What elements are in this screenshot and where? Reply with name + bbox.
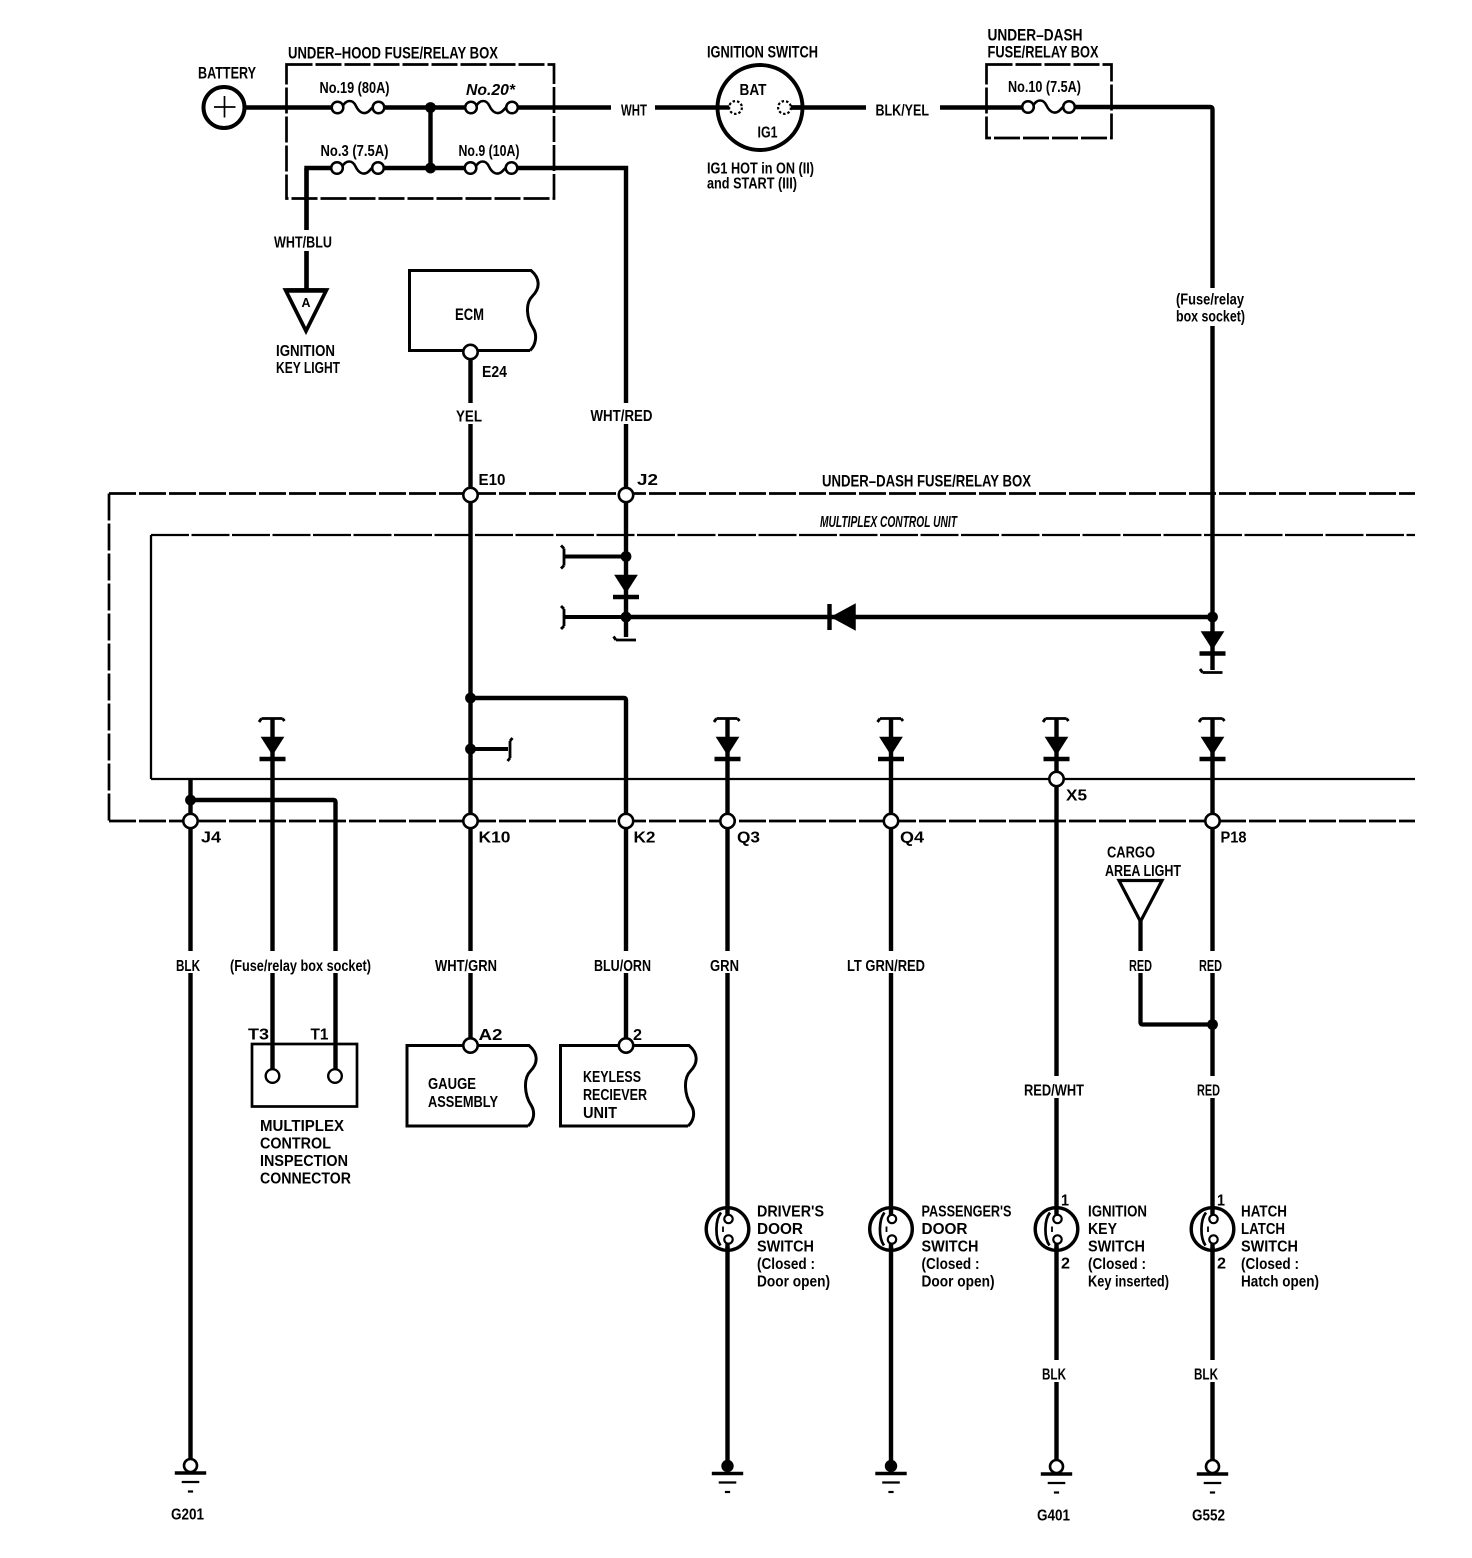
wire K2 to keyless receiver pin 2 — [624, 828, 628, 1039]
svg-text:UNIT: UNIT — [583, 1105, 617, 1122]
svg-text:LATCH: LATCH — [1241, 1221, 1285, 1238]
hook above diode D7 (X5 column) — [1043, 719, 1069, 723]
svg-text:IGNITION: IGNITION — [1088, 1204, 1147, 1221]
label WHT wire — [611, 98, 655, 120]
ground G201 — [175, 1459, 206, 1492]
fuse No.9 (10A) — [465, 162, 518, 174]
wire battery to fuse No.19 — [244, 105, 333, 109]
svg-text:No.19 (80A): No.19 (80A) — [320, 80, 390, 97]
svg-text:INSPECTION: INSPECTION — [260, 1153, 348, 1170]
cargo area light (lamp triangle) — [1119, 881, 1162, 922]
junction dot row2 — [425, 163, 436, 174]
hook above diode D6 (Q4 column) — [878, 719, 904, 723]
junction dot P18 column at bus — [1207, 612, 1218, 623]
svg-text:Q3: Q3 — [737, 830, 760, 847]
wire RED P18 to hatch latch switch pin 1 — [1210, 828, 1214, 1211]
ECM box — [410, 271, 539, 351]
svg-text:A2: A2 — [479, 1027, 503, 1044]
keyless receiver unit box — [561, 1046, 697, 1127]
svg-text:DRIVER'S: DRIVER'S — [757, 1204, 824, 1221]
svg-text:G552: G552 — [1192, 1508, 1225, 1525]
svg-text:LT GRN/RED: LT GRN/RED — [847, 958, 925, 975]
stub hook below J2 column — [614, 637, 637, 641]
svg-text:BATTERY: BATTERY — [198, 64, 256, 83]
svg-text:ECM: ECM — [455, 305, 484, 324]
connector K10 — [463, 814, 477, 828]
svg-text:UNDER–DASH FUSE/RELAY BOX: UNDER–DASH FUSE/RELAY BOX — [822, 472, 1032, 491]
svg-text:1: 1 — [1061, 1193, 1069, 1210]
fuse No.3 (7.5A) — [331, 162, 384, 174]
svg-text:ASSEMBLY: ASSEMBLY — [428, 1094, 498, 1111]
svg-text:RECIEVER: RECIEVER — [583, 1087, 647, 1104]
svg-text:Door open): Door open) — [757, 1274, 830, 1291]
label DRIVER'S DOOR SWITCH (Closed : Door open) — [757, 1204, 830, 1291]
svg-text:2: 2 — [1217, 1256, 1226, 1273]
label BLK/YEL wire — [866, 98, 940, 120]
svg-text:Door open): Door open) — [922, 1274, 995, 1291]
wire fuse No.3 to junction to fuse No.9 — [383, 166, 466, 170]
diode D7 (down) — [1044, 738, 1070, 760]
connector K2 — [619, 814, 633, 828]
gauge assembly box — [407, 1046, 536, 1127]
svg-text:(Fuse/relay box socket): (Fuse/relay box socket) — [230, 958, 371, 975]
svg-text:and START (III): and START (III) — [707, 176, 797, 193]
battery — [204, 87, 245, 128]
label LT GRN/RED wire — [840, 951, 932, 975]
fuse No.20 — [465, 101, 518, 113]
label YEL wire — [449, 403, 490, 426]
terminal T1 — [328, 1069, 342, 1083]
label GRN wire — [703, 951, 746, 975]
multiplex control unit box: bottom edge — [151, 778, 1415, 780]
svg-text:WHT/RED: WHT/RED — [591, 408, 653, 425]
diode D3 (down, P18 column) — [1200, 632, 1226, 654]
diode D8 (down) — [1200, 738, 1226, 760]
label BLK wire (G552) — [1187, 1360, 1230, 1384]
stub wire left of J2 diode (row 1) — [564, 555, 626, 559]
fuse No.10 (7.5A) — [1022, 101, 1075, 113]
label RED/WHT wire — [1017, 1076, 1091, 1100]
ignition switch — [716, 65, 804, 150]
wire RED cargo area light to P18 column — [1141, 921, 1213, 1025]
svg-text:BLK: BLK — [176, 958, 200, 975]
stub hook left (row 1) — [561, 546, 564, 569]
svg-text:Hatch open): Hatch open) — [1241, 1274, 1319, 1291]
junction dot row1 — [425, 102, 436, 113]
svg-text:Key inserted): Key inserted) — [1088, 1274, 1169, 1291]
svg-text:RED: RED — [1197, 1083, 1220, 1100]
svg-text:G201: G201 — [171, 1507, 204, 1524]
svg-text:E24: E24 — [482, 364, 507, 381]
junction dot stub — [465, 744, 476, 755]
svg-text:GAUGE: GAUGE — [428, 1076, 476, 1093]
wire BLK J4 to G201 — [188, 828, 192, 1460]
svg-text:No.9 (10A): No.9 (10A) — [459, 143, 520, 160]
label PASSENGER'S DOOR SWITCH (Closed : Door open) — [922, 1204, 1012, 1291]
svg-text:(Closed :: (Closed : — [757, 1256, 815, 1273]
svg-text:BLU/ORN: BLU/ORN — [594, 958, 651, 975]
wire J2 down through diode stack — [624, 502, 628, 637]
connector A2 — [463, 1038, 477, 1052]
junction dot J2 row2 — [621, 612, 632, 623]
svg-text:No.20*: No.20* — [466, 82, 516, 99]
label HATCH LATCH SWITCH (Closed : Hatch open) — [1241, 1204, 1319, 1291]
wire K10 junction to K10 — [468, 698, 472, 814]
wire driver's door switch to ground — [725, 1247, 729, 1461]
wire RED/WHT X5 to ignition key switch pin 1 — [1054, 785, 1058, 1211]
multiplex control unit box: top edge — [151, 534, 1415, 536]
svg-text:No.10 (7.5A): No.10 (7.5A) — [1008, 79, 1081, 96]
svg-text:T3: T3 — [248, 1027, 269, 1044]
svg-text:KEY LIGHT: KEY LIGHT — [276, 360, 340, 377]
svg-text:SWITCH: SWITCH — [922, 1239, 979, 1256]
svg-text:2: 2 — [1061, 1256, 1070, 1273]
label WHT/RED wire — [584, 403, 660, 425]
note (Fuse/relay box socket) right — [1170, 288, 1252, 326]
hook above diode D5 (Q3 column) — [714, 719, 740, 723]
svg-text:BLK: BLK — [1194, 1367, 1218, 1384]
diode D1 (down, J2 column) — [613, 576, 639, 598]
svg-text:CONNECTOR: CONNECTOR — [260, 1171, 351, 1188]
stub end tick — [508, 738, 513, 761]
hook above diode D4 (J4 area column) — [259, 719, 285, 723]
note (Fuse/relay box socket) — [223, 951, 378, 975]
stub hook below D3 — [1200, 669, 1223, 673]
svg-text:IG1: IG1 — [758, 125, 778, 142]
stub hook left (row 2) — [561, 606, 564, 629]
wire D7 column to X5 — [1054, 718, 1058, 773]
label RED wire (P18) — [1192, 951, 1230, 975]
svg-text:J4: J4 — [201, 830, 221, 847]
svg-text:G401: G401 — [1037, 1508, 1070, 1525]
svg-text:GRN: GRN — [710, 958, 739, 975]
label WHT/GRN wire — [428, 951, 504, 975]
label RED wire (below junction) — [1190, 1076, 1228, 1100]
label WHT/BLU wire — [267, 230, 339, 252]
svg-text:(Closed :: (Closed : — [1088, 1256, 1146, 1273]
wire BLK ignition key switch pin 2 to G401 — [1054, 1247, 1058, 1461]
connector Q3 — [720, 814, 734, 828]
svg-text:RED/WHT: RED/WHT — [1024, 1083, 1084, 1100]
svg-text:MULTIPLEX CONTROL UNIT: MULTIPLEX CONTROL UNIT — [820, 514, 958, 531]
ECM pin E24 — [463, 345, 477, 359]
connector E10 — [463, 488, 477, 502]
wire fuse No.10 to right corner down (fuse/relay box socket wire) — [1075, 107, 1213, 617]
hatch latch switch — [1191, 1208, 1234, 1251]
wire GRN Q3 to driver's door switch — [725, 828, 729, 1211]
wire LT GRN/RED Q4 to passenger's door switch — [889, 828, 893, 1211]
svg-text:No.3 (7.5A): No.3 (7.5A) — [321, 143, 389, 160]
ground (driver's door switch) — [712, 1460, 743, 1492]
svg-text:KEYLESS: KEYLESS — [583, 1069, 641, 1086]
svg-text:BAT: BAT — [740, 82, 767, 99]
junction dot K10 jumper — [465, 693, 476, 704]
wire diode D4 column down to T3 — [270, 718, 274, 1070]
svg-text:DOOR: DOOR — [922, 1221, 968, 1238]
wire fuse No.20 to ignition switch — [518, 105, 730, 109]
connector J2 — [619, 488, 633, 502]
wire D8 column to P18 — [1210, 718, 1214, 814]
terminal T3 — [266, 1069, 280, 1083]
svg-text:Q4: Q4 — [900, 830, 924, 847]
svg-text:RED: RED — [1129, 958, 1152, 975]
svg-text:BLK/YEL: BLK/YEL — [876, 103, 930, 120]
svg-text:P18: P18 — [1221, 830, 1247, 847]
ignition key light (triangle A) — [286, 290, 327, 331]
svg-text:DOOR: DOOR — [757, 1221, 803, 1238]
ignition key switch — [1035, 1208, 1078, 1251]
under-dash fuse/relay box outer: bottom edge — [109, 820, 1415, 823]
svg-text:RED: RED — [1199, 958, 1222, 975]
wire fuse No.19 to junction to fuse No.20 — [383, 105, 467, 109]
svg-text:2: 2 — [633, 1027, 642, 1044]
svg-text:SWITCH: SWITCH — [1241, 1239, 1298, 1256]
multiplex control inspection connector box — [252, 1044, 357, 1107]
stub wire at K10 column — [471, 747, 509, 751]
ground (passenger's door switch) — [875, 1460, 906, 1492]
svg-text:box socket): box socket) — [1176, 309, 1245, 326]
svg-text:J2: J2 — [637, 472, 658, 489]
svg-text:KEY: KEY — [1088, 1221, 1118, 1238]
connector P18 — [1205, 814, 1219, 828]
svg-text:K10: K10 — [479, 830, 511, 847]
label BLU/ORN wire — [587, 951, 658, 975]
wire WHT/BLU down to ignition key light — [304, 168, 308, 294]
diode D6 (down) — [878, 738, 904, 760]
svg-text:IGNITION: IGNITION — [276, 343, 335, 360]
svg-text:IGNITION SWITCH: IGNITION SWITCH — [707, 43, 818, 62]
label BLK wire (G401) — [1035, 1360, 1078, 1384]
connector Q4 — [884, 814, 898, 828]
svg-text:CONTROL: CONTROL — [260, 1136, 331, 1153]
svg-text:CARGO: CARGO — [1107, 845, 1155, 862]
svg-text:E10: E10 — [479, 472, 506, 489]
wire D3 to hook — [1210, 617, 1214, 670]
passenger's door switch — [870, 1208, 913, 1251]
wire D6 column to Q4 — [889, 718, 893, 814]
wire J4 riser from multiplex unit edge — [188, 779, 192, 814]
svg-text:SWITCH: SWITCH — [1088, 1239, 1145, 1256]
svg-text:(Closed :: (Closed : — [922, 1256, 980, 1273]
label IGNITION KEY SWITCH (Closed : Key inserted) — [1088, 1204, 1169, 1291]
driver's door switch — [706, 1208, 749, 1251]
wire K10 to A2 — [468, 828, 472, 1039]
label RED wire (cargo) — [1122, 951, 1158, 975]
under-dash fuse/relay box (top right) — [987, 65, 1112, 139]
wire YEL from E24 to E10 — [468, 359, 472, 488]
wire jumper K10 to K2 column — [471, 698, 627, 814]
label BLK wire (J4) — [169, 951, 212, 975]
svg-text:WHT/GRN: WHT/GRN — [435, 958, 497, 975]
svg-text:AREA LIGHT: AREA LIGHT — [1105, 863, 1181, 880]
junction dot J4 step — [185, 795, 196, 806]
connector X5 — [1049, 772, 1063, 786]
hook above diode D8 (P18 column) — [1199, 719, 1225, 723]
svg-text:SWITCH: SWITCH — [757, 1239, 814, 1256]
stub wire left (row 2) — [564, 615, 626, 619]
wire fuse No.3 left to WHT/BLU corner — [307, 168, 334, 292]
svg-text:WHT/BLU: WHT/BLU — [274, 235, 332, 252]
wire BLK hatch latch switch pin 2 to G552 — [1210, 1247, 1214, 1461]
ground G401 — [1041, 1460, 1072, 1493]
svg-text:T1: T1 — [311, 1027, 329, 1044]
wire ignition switch to under-dash fuse box — [791, 105, 1023, 109]
junction dot J2 row1 — [621, 551, 632, 562]
svg-text:(Closed :: (Closed : — [1241, 1256, 1299, 1273]
wire fuse No.9 right to J2 corner — [517, 168, 626, 489]
svg-text:PASSENGER'S: PASSENGER'S — [922, 1204, 1012, 1221]
svg-text:MULTIPLEX: MULTIPLEX — [260, 1118, 344, 1135]
multiplex control unit box: left edge — [150, 535, 152, 779]
under-dash fuse/relay box outer: top edge — [109, 492, 1415, 495]
svg-text:K2: K2 — [634, 830, 656, 847]
diode D4 (down) — [260, 738, 286, 760]
fuse No.19 (80A) — [332, 101, 385, 113]
svg-text:BLK: BLK — [1042, 1367, 1066, 1384]
svg-text:FUSE/RELAY BOX: FUSE/RELAY BOX — [988, 43, 1099, 62]
wire E10 to K10 junction — [468, 502, 472, 698]
svg-text:X5: X5 — [1066, 788, 1087, 805]
diode D5 (down) — [715, 738, 741, 760]
connector J4 — [183, 814, 197, 828]
under-dash fuse/relay box outer: left edge — [108, 494, 111, 822]
svg-text:HATCH: HATCH — [1241, 1204, 1287, 1221]
svg-text:YEL: YEL — [456, 409, 482, 426]
svg-text:WHT: WHT — [621, 103, 647, 120]
svg-text:A: A — [302, 296, 311, 310]
diode D2 (pointing left, on bus) — [830, 604, 856, 630]
svg-text:1: 1 — [1217, 1193, 1225, 1210]
wire bus row2 J2 to P18 column — [626, 615, 1213, 619]
connector 2 (keyless receiver) — [619, 1038, 633, 1052]
wire D5 column to Q3 — [725, 718, 729, 814]
under-hood fuse/relay box — [287, 65, 555, 199]
ground G552 — [1197, 1460, 1228, 1493]
wire passenger's door switch to ground — [889, 1247, 893, 1461]
wire junction vertical — [428, 108, 432, 169]
wire step J4 to T1 column — [191, 800, 336, 1070]
junction dot cargo area light — [1207, 1019, 1218, 1030]
svg-text:UNDER–HOOD FUSE/RELAY BOX: UNDER–HOOD FUSE/RELAY BOX — [288, 44, 499, 63]
svg-text:(Fuse/relay: (Fuse/relay — [1176, 292, 1244, 309]
